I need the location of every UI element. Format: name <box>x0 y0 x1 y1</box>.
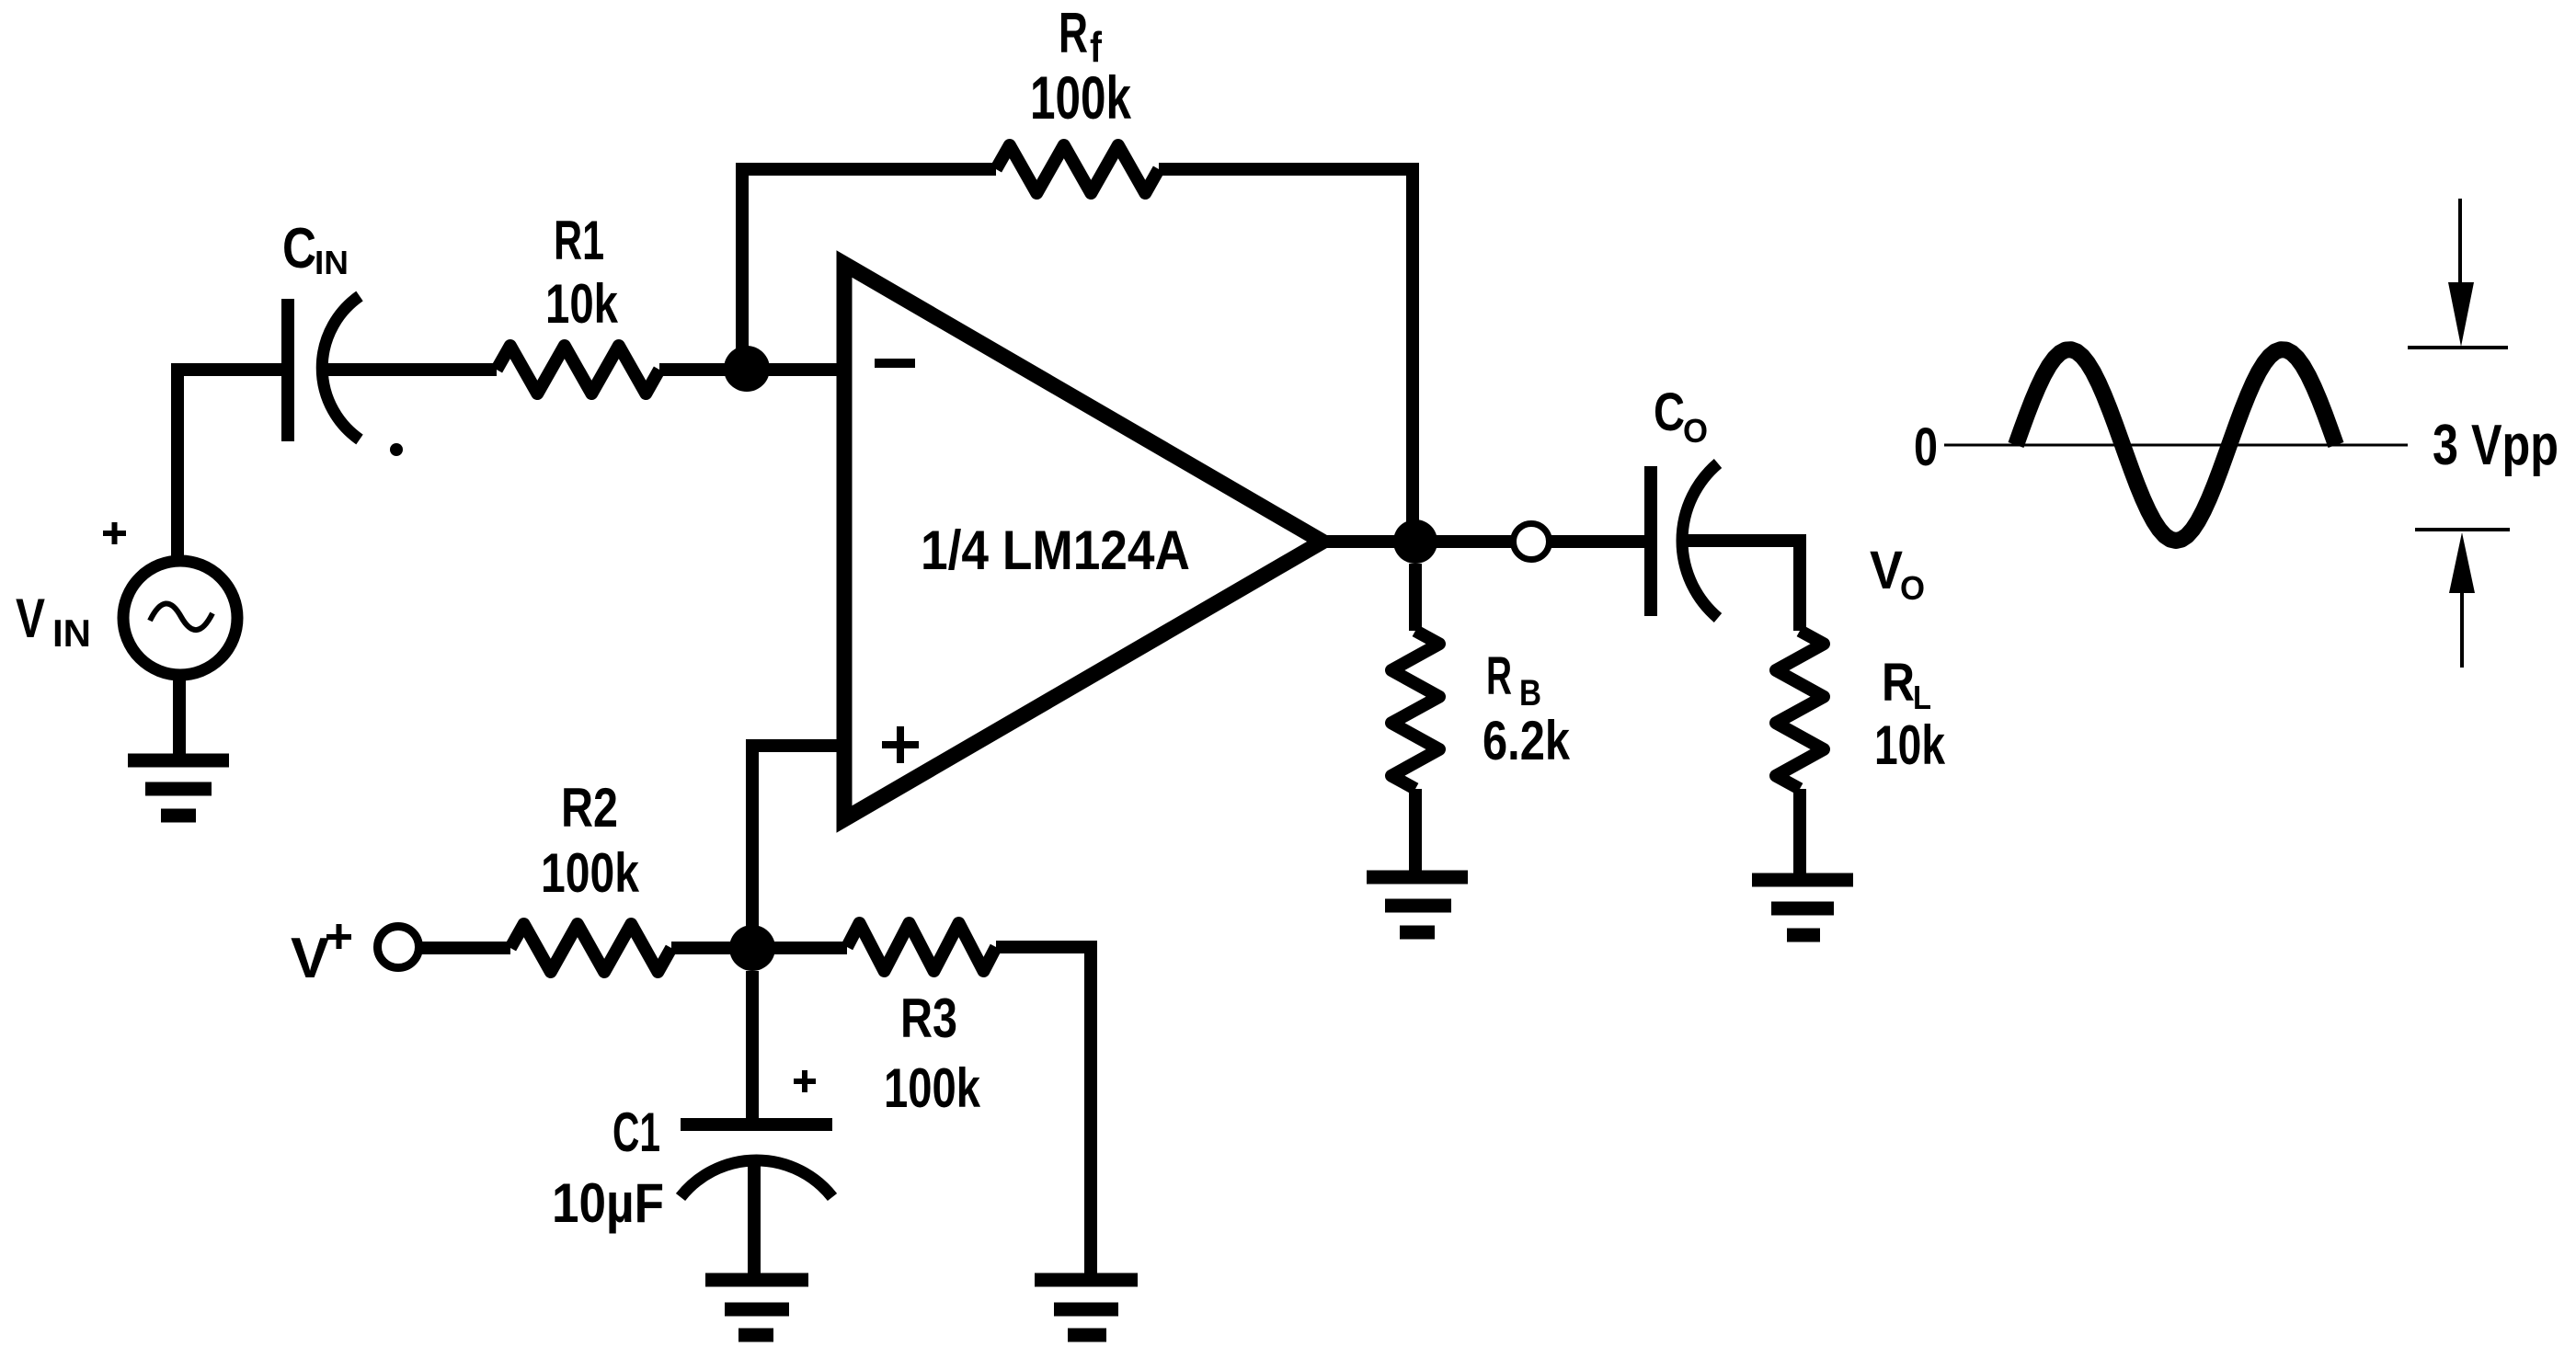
svg-text:R1: R1 <box>554 210 604 271</box>
svg-text:V: V <box>1870 541 1903 600</box>
svg-text:6.2k: 6.2k <box>1483 710 1571 771</box>
svg-text:C: C <box>282 217 316 280</box>
svg-text:IN: IN <box>315 244 349 281</box>
svg-text:100k: 100k <box>884 1057 980 1119</box>
svg-text:R3: R3 <box>900 987 957 1049</box>
svg-text:V: V <box>291 927 329 990</box>
svg-text:0: 0 <box>1914 417 1938 477</box>
svg-text:10k: 10k <box>545 273 618 335</box>
svg-text:IN: IN <box>52 611 91 655</box>
svg-text:3 Vpp: 3 Vpp <box>2433 414 2559 477</box>
svg-text:O: O <box>1900 569 1925 607</box>
svg-text:1/4 LM124A: 1/4 LM124A <box>921 519 1190 581</box>
svg-text:10k: 10k <box>1874 714 1945 776</box>
svg-text:L: L <box>1913 679 1931 716</box>
svg-text:100k: 100k <box>1030 63 1131 131</box>
svg-text:C1: C1 <box>613 1102 660 1163</box>
svg-text:R: R <box>1486 646 1512 706</box>
svg-text:R: R <box>1882 653 1915 713</box>
svg-text:R: R <box>1059 2 1088 65</box>
svg-text:C: C <box>1654 382 1685 442</box>
svg-text:100k: 100k <box>541 842 639 904</box>
svg-text:R2: R2 <box>561 777 618 839</box>
svg-text:V: V <box>16 588 45 649</box>
svg-text:O: O <box>1683 412 1708 450</box>
svg-text:B: B <box>1519 673 1541 713</box>
svg-text:10µF: 10µF <box>552 1172 664 1234</box>
